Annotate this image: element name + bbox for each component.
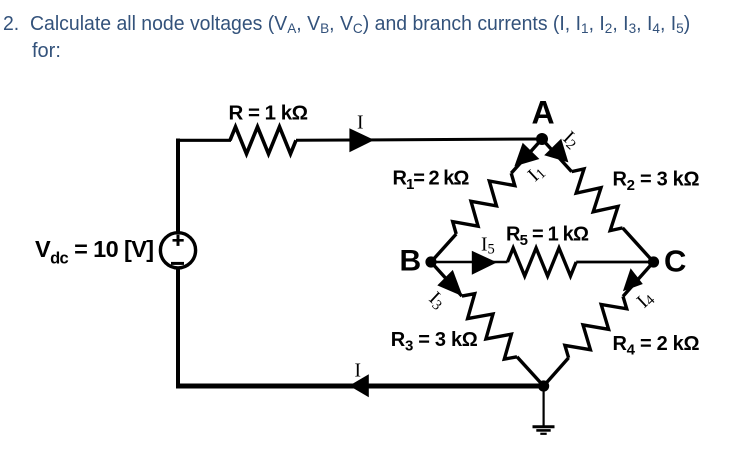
voltage source Vdc circle bbox=[160, 233, 195, 268]
voltage source plus sign bbox=[173, 239, 184, 242]
svg-text:I: I bbox=[357, 113, 364, 134]
node B dot bbox=[425, 256, 436, 267]
voltage source minus sign bbox=[171, 262, 184, 265]
wire: zigzag to ground node bbox=[544, 358, 569, 386]
branch R1: wire A to zigzag bbox=[511, 139, 542, 173]
svg-text:I4: I4 bbox=[633, 287, 659, 313]
resistor R2 zigzag bbox=[572, 169, 623, 231]
svg-text:C: C bbox=[664, 243, 686, 278]
branch R4: wire C to zigzag bbox=[623, 262, 654, 296]
ground symbol stem bbox=[542, 386, 544, 426]
ground node dot bbox=[538, 380, 549, 391]
current arrow I4 bbox=[623, 268, 643, 291]
wire: left vertical rail top part bbox=[176, 139, 180, 234]
svg-text:R5 = 1 kΩ: R5 = 1 kΩ bbox=[506, 223, 589, 249]
svg-text:Vdc = 10 [V]: Vdc = 10 [V] bbox=[35, 236, 154, 268]
wire: B to R5 zigzag bbox=[431, 261, 508, 264]
wire: top right segment to node A bbox=[296, 139, 542, 140]
wire: top left segment bbox=[176, 139, 231, 142]
wire: zigzag to node C bbox=[623, 228, 654, 262]
svg-text:A: A bbox=[532, 95, 555, 131]
resistor R4 zigzag bbox=[565, 296, 627, 357]
svg-text:I5: I5 bbox=[481, 234, 495, 257]
current arrow I1 bbox=[514, 143, 539, 167]
problem statement line 2 bbox=[32, 40, 61, 63]
current arrow I2 bbox=[544, 139, 568, 163]
wire: zigzag to ground node bbox=[517, 357, 544, 386]
resistor R3 zigzag bbox=[462, 294, 517, 359]
svg-text:I: I bbox=[355, 360, 362, 381]
svg-text:R4 = 2 kΩ: R4 = 2 kΩ bbox=[613, 333, 700, 359]
current arrow I (bottom) bbox=[349, 374, 369, 397]
wire: left vertical rail bottom part bbox=[176, 268, 180, 387]
svg-text:R = 1 kΩ: R = 1 kΩ bbox=[229, 101, 308, 124]
svg-text:R1= 2 kΩ: R1= 2 kΩ bbox=[393, 168, 470, 194]
svg-text:I1: I1 bbox=[524, 161, 549, 187]
current arrow I3 bbox=[437, 270, 462, 296]
branch R2: wire A to zigzag bbox=[542, 139, 572, 172]
wire: bottom horizontal bbox=[176, 384, 544, 389]
wire: R5 zigzag to node C bbox=[576, 261, 653, 264]
resistor R1 zigzag bbox=[453, 173, 515, 234]
resistor R zigzag bbox=[230, 127, 296, 154]
branch R3: wire B to zigzag bbox=[431, 262, 462, 296]
current arrow I5 bbox=[472, 251, 497, 275]
node A dot bbox=[536, 133, 548, 145]
current arrow I (top) bbox=[349, 128, 374, 152]
svg-text:I3: I3 bbox=[424, 288, 449, 314]
ground symbol bars bbox=[533, 425, 555, 428]
svg-text:B: B bbox=[400, 245, 422, 278]
node C dot bbox=[648, 256, 659, 267]
problem statement line 1 bbox=[3, 13, 690, 36]
svg-text:R2 = 3 kΩ: R2 = 3 kΩ bbox=[613, 168, 700, 194]
resistor R5 zigzag bbox=[508, 248, 577, 276]
wire: zigzag to node B bbox=[431, 234, 456, 262]
svg-text:R3 = 3 kΩ: R3 = 3 kΩ bbox=[391, 329, 478, 355]
